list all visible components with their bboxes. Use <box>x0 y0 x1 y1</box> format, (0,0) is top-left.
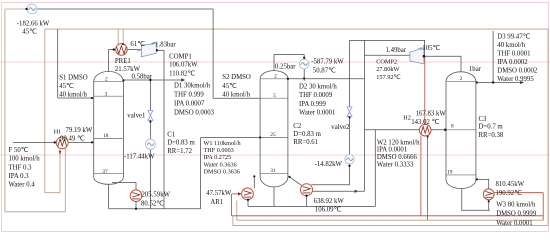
wire COMP2 outlet to C3 <box>424 56 461 72</box>
wire reboiler loop riser <box>374 130 376 207</box>
wire H2 process line <box>365 129 447 131</box>
cooler COOL2 <box>299 59 309 69</box>
svg-text:143.02 ℃: 143.02 ℃ <box>411 119 439 126</box>
svg-text:IPA 0.999: IPA 0.999 <box>299 101 327 108</box>
wire tan stub up at x233 <box>232 216 234 226</box>
arrow D1 end <box>181 78 185 81</box>
reboiler AR2 right <box>301 184 313 196</box>
wire red into W3 reboiler right <box>494 192 543 194</box>
wire W1 feed into C2 <box>201 137 261 139</box>
svg-text:106.09℃: 106.09℃ <box>315 206 342 213</box>
svg-text:810.45kW: 810.45kW <box>496 181 525 188</box>
svg-text:S1 DMSO: S1 DMSO <box>59 75 88 82</box>
svg-text:110.82℃: 110.82℃ <box>169 70 195 77</box>
svg-text:D1 30kmol/h: D1 30kmol/h <box>174 83 211 90</box>
wire C2 draw to AR2 <box>290 177 302 186</box>
svg-text:DMSO 0.0002: DMSO 0.0002 <box>497 68 538 75</box>
svg-text:45℃: 45℃ <box>59 83 74 90</box>
black process lines <box>13 9 522 210</box>
svg-text:37: 37 <box>102 169 108 175</box>
wire tan mid horizontal y221 <box>237 219 543 221</box>
node junction 287.9,78.8 <box>287 78 289 80</box>
heater H2 <box>419 124 431 136</box>
wire tan bottom horizontal y226 <box>233 224 548 226</box>
node junction 157,50.3 <box>156 49 158 51</box>
wire H1 outlet into C1 <box>68 141 94 143</box>
wire tan left vertical <box>4 9 6 212</box>
column C3 <box>446 72 476 189</box>
svg-text:D=0.7 m: D=0.7 m <box>479 124 504 131</box>
svg-text:80.52℃: 80.52℃ <box>141 201 164 208</box>
C1 tray numbers <box>102 76 108 175</box>
wire C1 bottoms down <box>108 184 110 209</box>
svg-text:0.58bar: 0.58bar <box>132 74 153 81</box>
svg-text:-587.79 kW: -587.79 kW <box>311 58 344 65</box>
svg-text:1.83bar: 1.83bar <box>155 42 176 49</box>
svg-text:RR=1.72: RR=1.72 <box>167 148 192 155</box>
wire S1 vertical x58 <box>57 29 59 98</box>
node junction 150.4,80 <box>149 79 151 81</box>
svg-text:27.80kW: 27.80kW <box>376 66 399 73</box>
svg-text:18: 18 <box>103 133 109 139</box>
svg-text:H2: H2 <box>403 115 411 122</box>
svg-text:47.57kW: 47.57kW <box>206 190 232 197</box>
svg-text:W3 80 kmol/h: W3 80 kmol/h <box>496 202 536 209</box>
wire W2 from AR2 <box>312 190 365 192</box>
svg-text:DMSO 0.9999: DMSO 0.9999 <box>496 211 537 218</box>
svg-text:Water 0.3333: Water 0.3333 <box>377 162 414 169</box>
wire tan bottom-left horizontal <box>5 211 65 213</box>
wire PRE1 to COMP1 <box>127 49 141 51</box>
node junction 349.5,165.8 <box>348 165 350 167</box>
wire red right vertical <box>542 193 544 221</box>
node junction 254.3,176.4 <box>253 175 255 177</box>
arrow blue COMP2 outlet <box>417 47 422 50</box>
svg-text:DMSO 0.3636: DMSO 0.3636 <box>204 168 240 175</box>
svg-text:D2 30 kmol/h: D2 30 kmol/h <box>299 84 337 91</box>
svg-text:IPA 0.3: IPA 0.3 <box>9 173 30 180</box>
svg-text:THF 0.0009: THF 0.0009 <box>299 92 333 99</box>
wire tan up into H1 right leg <box>64 148 66 212</box>
column C2 <box>260 71 288 187</box>
node junction 349.5,117.4 <box>348 116 350 118</box>
svg-text:3: 3 <box>105 91 108 97</box>
wire COOL2 top stub <box>303 54 305 59</box>
node junction 260.1,137.5 <box>259 136 261 138</box>
svg-text:C3: C3 <box>479 116 488 123</box>
valve valve1 <box>148 111 153 121</box>
wire C3 bottoms <box>462 189 490 211</box>
node junction 123.4,80.4 <box>122 79 124 81</box>
H1 exit arrow <box>59 151 62 155</box>
node junction 26.6,9 <box>25 8 27 10</box>
svg-text:W1 110kmol/h: W1 110kmol/h <box>204 140 242 147</box>
svg-text:THF 0.999: THF 0.999 <box>174 92 204 99</box>
wire red arrow line into AR1 <box>232 193 239 195</box>
wire PRE1 tan leg left <box>117 29 119 44</box>
cooler -14.82kW <box>345 155 354 164</box>
svg-text:79.19 kW: 79.19 kW <box>66 127 93 134</box>
wire C1 overhead to PRE1 <box>109 50 116 72</box>
svg-text:190.92℃: 190.92℃ <box>496 190 523 197</box>
node junction 445.3,129.8 <box>444 129 447 132</box>
svg-text:1bar: 1bar <box>469 66 482 73</box>
svg-text:40 kmol/h: 40 kmol/h <box>59 92 87 99</box>
svg-text:-182.66 kW: -182.66 kW <box>17 20 50 27</box>
svg-text:DMSO 0.0003: DMSO 0.0003 <box>174 110 215 117</box>
svg-text:THF 0.0003: THF 0.0003 <box>204 147 234 154</box>
wire 1.83bar leader <box>151 42 156 44</box>
node junction 92,142.4 <box>91 141 93 143</box>
node junction 423.9,56.2 <box>423 55 426 58</box>
node junction 493.1,82.5 <box>492 81 494 83</box>
preheater PRE1 <box>116 44 128 56</box>
wire COMP1 condensate vertical <box>163 50 165 209</box>
wire valve1 line down <box>149 80 151 209</box>
svg-text:157.92℃: 157.92℃ <box>376 74 400 81</box>
wire REB1 return to C1 <box>112 183 136 190</box>
svg-text:8: 8 <box>451 124 454 130</box>
node junction 54.8,142.4 <box>54 141 56 143</box>
wire tan horizontal under H1 <box>45 192 60 194</box>
svg-text:90.49 ℃: 90.49 ℃ <box>60 136 85 143</box>
C2 tray numbers <box>270 74 277 175</box>
wire W3 reboiler bottom <box>488 200 490 211</box>
svg-text:C2: C2 <box>293 123 302 130</box>
svg-text:25: 25 <box>270 132 276 138</box>
COMP1 inlet arrow <box>138 49 141 52</box>
wire tan inlet to COOL1 <box>5 8 28 10</box>
svg-text:50.87℃: 50.87℃ <box>313 67 336 74</box>
svg-text:5: 5 <box>273 93 276 99</box>
svg-text:19: 19 <box>447 170 453 176</box>
node junction 150.4,121.6 <box>149 121 151 123</box>
svg-text:PRE1: PRE1 <box>115 58 131 65</box>
reboiler AR1 left <box>242 188 254 200</box>
svg-text:RR=0.61: RR=0.61 <box>293 139 318 146</box>
wire C2 bottoms down <box>273 187 275 207</box>
C3 tray numbers <box>447 76 463 176</box>
column C1 <box>94 71 124 184</box>
wire W1 vertical up <box>200 138 202 209</box>
svg-text:D=0.83 m: D=0.83 m <box>167 140 195 147</box>
wire 0.58bar D1 line <box>123 79 181 81</box>
arrow W2 right <box>355 190 359 193</box>
svg-text:Water 0.0001: Water 0.0001 <box>496 220 532 227</box>
node junction 289.5,176.9 <box>288 176 290 178</box>
wire red H2 left leg down <box>420 136 422 216</box>
svg-text:2: 2 <box>274 74 277 80</box>
wire AR1 top connect <box>253 177 255 189</box>
arrow D3 end <box>520 81 524 84</box>
svg-text:638.92 kW: 638.92 kW <box>314 198 345 205</box>
compressor COMP1 <box>141 44 156 57</box>
wire C2 overhead <box>274 54 304 70</box>
wire tan vertical to AR1 <box>236 201 238 221</box>
wire red H2 top vertical <box>424 56 426 125</box>
C1 trays <box>94 82 124 174</box>
svg-text:105℃: 105℃ <box>422 45 440 52</box>
svg-text:205.59kW: 205.59kW <box>142 192 171 199</box>
svg-text:40 kmol/h: 40 kmol/h <box>497 42 525 49</box>
svg-text:valve1: valve1 <box>127 112 145 119</box>
wire F feed into H1 <box>13 141 56 143</box>
C3 trays <box>446 81 476 174</box>
svg-text:D=0.83 m: D=0.83 m <box>293 131 321 138</box>
svg-text:Water 0.9995: Water 0.9995 <box>497 76 534 83</box>
node junction 92,98 <box>91 97 93 99</box>
wire COMP2 inlet <box>365 54 410 56</box>
node junction 488.7,201.3 <box>488 200 490 202</box>
wire COMP1 outlet <box>157 49 164 51</box>
compressor COMP2 <box>410 48 424 64</box>
node junction 136,208.8 <box>135 208 137 210</box>
reboiler W3 <box>483 189 494 200</box>
wire AR2 bottom connect <box>306 196 308 207</box>
node junction 248,199.8 <box>247 199 249 201</box>
svg-text:61℃: 61℃ <box>130 41 145 48</box>
wire red H2 right leg down <box>427 136 429 221</box>
reboiler REB1 <box>130 190 142 202</box>
wire tan top horizontal y29 <box>45 28 548 30</box>
wire C2 reboiler loop <box>248 205 375 207</box>
wire red bottom horizontal y216 <box>232 215 544 217</box>
wire red vertical to AR1 <box>231 194 233 216</box>
wire W3 reboiler top <box>476 179 489 189</box>
node junction 476.8,179.4 <box>476 178 478 180</box>
svg-text:D3 99.47℃: D3 99.47℃ <box>497 34 530 41</box>
node junction 306.5,195.7 <box>305 195 307 197</box>
svg-text:2: 2 <box>105 76 108 82</box>
svg-text:THF 0.0001: THF 0.0001 <box>497 51 530 58</box>
node junction 113.8,49.6 <box>113 48 115 50</box>
svg-text:IPA 0.0002: IPA 0.0002 <box>497 59 528 66</box>
svg-text:Water 0.3636: Water 0.3636 <box>204 161 237 168</box>
svg-text:S2 DMSO: S2 DMSO <box>222 74 251 81</box>
svg-text:DMSO 0.6666: DMSO 0.6666 <box>377 154 418 161</box>
cooler COOL1 <box>27 4 37 14</box>
arrow red into AR1 <box>238 192 242 195</box>
wire COOL2 to D2 arrow <box>303 69 305 78</box>
wire PRE1 tan leg right <box>122 29 124 44</box>
node junction 304.2,57.8 <box>303 57 305 59</box>
wire tan vertical x45 <box>44 29 46 193</box>
wire AR1 bottom connect <box>247 200 249 207</box>
svg-text:F 50℃: F 50℃ <box>9 147 29 154</box>
svg-text:40 kmol/h: 40 kmol/h <box>222 92 250 99</box>
svg-text:W2 120 kmol/h: W2 120 kmol/h <box>377 139 420 146</box>
cooler -117.44kW <box>145 139 155 149</box>
wire W2 riser vertical <box>364 40 366 191</box>
svg-text:1.49bar: 1.49bar <box>386 47 407 54</box>
wire C1 reboiler loop bottom <box>109 208 201 210</box>
svg-text:valve2: valve2 <box>331 124 350 131</box>
svg-text:COMP2: COMP2 <box>376 59 397 66</box>
svg-text:IPA 0.0007: IPA 0.0007 <box>174 101 205 108</box>
svg-text:IPA 0.2725: IPA 0.2725 <box>204 154 232 161</box>
wire S1 feed into C1 <box>58 97 94 99</box>
wire valve2 line down <box>311 40 349 184</box>
wire top line y40 <box>350 40 425 56</box>
svg-text:0.25bar: 0.25bar <box>275 63 296 70</box>
wire D3 product <box>476 82 522 84</box>
svg-text:-14.82kW: -14.82kW <box>315 161 343 168</box>
wire H1 left tan leg down <box>59 148 61 193</box>
red heat-integration lines <box>232 56 544 220</box>
svg-text:RR=0.38: RR=0.38 <box>479 132 504 139</box>
C2 trays <box>260 79 288 174</box>
svg-text:COMP1: COMP1 <box>169 54 192 61</box>
svg-text:21.57kW: 21.57kW <box>115 66 141 73</box>
svg-text:C1: C1 <box>167 132 175 139</box>
arrow red down below H2 <box>426 136 429 140</box>
svg-text:2: 2 <box>460 76 463 82</box>
svg-text:H1: H1 <box>54 128 62 135</box>
svg-text:AR1: AR1 <box>210 199 223 206</box>
svg-text:45℃: 45℃ <box>22 29 37 36</box>
wire D3 label vertical <box>492 31 494 83</box>
svg-text:THF 0.3: THF 0.3 <box>9 164 33 171</box>
svg-text:106.07kW: 106.07kW <box>169 62 198 69</box>
svg-text:Water 0.0001: Water 0.0001 <box>299 109 335 116</box>
heater H1 <box>56 137 68 149</box>
svg-text:167.83 kW: 167.83 kW <box>416 110 447 117</box>
svg-text:-117.44kW: -117.44kW <box>124 154 155 161</box>
node junction 476.8,82.5 <box>476 81 478 83</box>
svg-text:45℃: 45℃ <box>222 83 237 90</box>
wire S2 feed into C2 <box>213 97 260 99</box>
node junction 123,44.2 <box>122 43 124 45</box>
valve valve2 <box>347 107 352 117</box>
wire tan right vertical x548 <box>547 29 549 225</box>
svg-text:IPA 0.0001: IPA 0.0001 <box>377 147 407 154</box>
wire top line COOL1 to x213 <box>37 8 213 10</box>
svg-text:31: 31 <box>270 168 276 174</box>
svg-text:100 kmol/h: 100 kmol/h <box>9 156 41 163</box>
wire REB1 bottom connect <box>135 201 137 208</box>
svg-text:Water 0.4: Water 0.4 <box>9 182 36 189</box>
arrow D2 down <box>303 78 306 82</box>
wire C2 vapor line to COMP2 riser <box>288 78 365 80</box>
wire S2 vertical x213 <box>212 9 214 98</box>
